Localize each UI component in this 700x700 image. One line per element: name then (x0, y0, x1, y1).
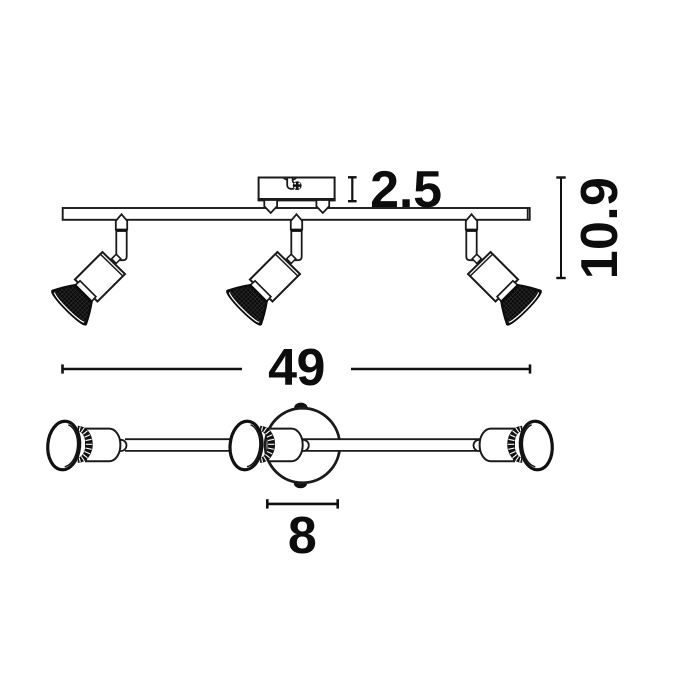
shade rim highlight (509, 293, 540, 324)
lamp neck (497, 281, 518, 302)
pivot joint (287, 254, 296, 263)
mounting bar (63, 208, 530, 220)
canopy clip right (316, 200, 329, 213)
canopy screw knob (293, 181, 302, 190)
stem cylinder (466, 230, 476, 261)
body cap line (275, 254, 298, 276)
canopy clip left (264, 200, 277, 213)
head body cylinder (480, 429, 514, 462)
body cap line (100, 254, 123, 276)
head pivot bump (298, 440, 309, 451)
canopy screw bump top (294, 403, 307, 413)
head pivot bump (115, 440, 126, 451)
stem cylinder (291, 230, 301, 261)
shade rim ellipse (228, 420, 264, 471)
shade rim highlight (53, 293, 84, 324)
stem pentagon connector (291, 214, 302, 229)
knurled ring (78, 426, 93, 463)
bar segment left (125, 439, 232, 451)
lamp neck (250, 281, 271, 302)
stem cylinder (116, 230, 126, 261)
stem ring (291, 229, 301, 232)
svg-text:2.5: 2.5 (370, 161, 442, 219)
stem pentagon connector (466, 214, 477, 229)
shade rim ellipse (46, 420, 82, 471)
body cap line (470, 254, 493, 276)
head body cylinder (268, 429, 302, 462)
lamp neck (75, 281, 96, 302)
dimension 8 line (267, 499, 337, 508)
svg-text:10.9: 10.9 (571, 177, 629, 279)
dimension 10.9 line (556, 178, 565, 279)
shade cone (50, 277, 100, 327)
shade rim ellipse (518, 420, 554, 471)
stem ring (466, 229, 476, 232)
knurled ring (260, 426, 275, 463)
shade cone (225, 277, 275, 327)
svg-text:8: 8 (288, 507, 317, 565)
canopy cable bracket (287, 178, 294, 189)
stem ring (116, 229, 126, 232)
dimension 49 line (63, 364, 531, 373)
lamp body (250, 252, 300, 302)
canopy circle (265, 408, 340, 483)
lamp body (468, 252, 518, 302)
head pivot bump (474, 440, 485, 451)
lamp body (75, 252, 125, 302)
head body cylinder (86, 429, 120, 462)
stem pentagon connector (116, 214, 127, 229)
dimension 2.5 tick (348, 177, 357, 201)
canopy screw bump bottom (294, 478, 307, 488)
shade cone (493, 277, 543, 327)
bar segment right (302, 439, 480, 451)
knurled ring (507, 426, 522, 463)
pivot joint (112, 254, 121, 263)
svg-text:49: 49 (268, 339, 325, 397)
canopy box (258, 178, 336, 201)
shade rim highlight (228, 293, 259, 324)
pivot joint (472, 254, 481, 263)
